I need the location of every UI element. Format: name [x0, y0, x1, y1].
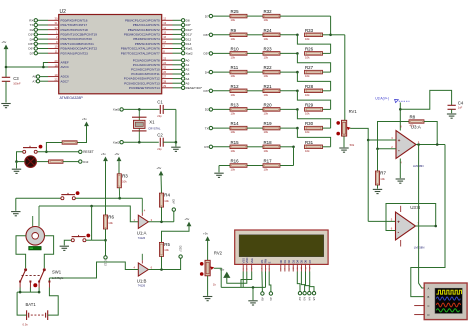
wire U3:A output to scope A [419, 145, 425, 289]
junction Xtal2/X1 [138, 141, 141, 144]
wire +5v rail down [5, 49, 7, 78]
svg-text:U1:B: U1:B [137, 278, 147, 283]
terminal D4 [34, 37, 37, 40]
svg-text:BAT1: BAT1 [26, 302, 37, 307]
wire node to D12 terminal [105, 240, 107, 256]
svg-text:10k: 10k [380, 177, 385, 181]
resistor R5 [159, 242, 170, 257]
wire R26 right [323, 52, 331, 54]
svg-text:2: 2 [56, 35, 58, 39]
resistor R24 [263, 28, 280, 41]
terminal D11* [181, 33, 184, 36]
svg-text:D9*: D9* [186, 23, 192, 27]
svg-text:E: E [267, 261, 271, 263]
svg-text:8: 8 [163, 49, 165, 53]
resistor R1 [62, 141, 77, 144]
wire R1 to RESET node [46, 143, 62, 152]
wire R23 to node [280, 52, 297, 54]
terminal D9* [172, 208, 175, 211]
U2 pin PD5 stub [48, 43, 59, 45]
wire A3 to LCD data [301, 272, 304, 292]
svg-text:ATMEGA328P: ATMEGA328P [60, 96, 84, 100]
svg-text:10k: 10k [122, 180, 127, 184]
wire button3 to node [86, 239, 92, 241]
wire RV2 wiper [214, 268, 222, 287]
svg-text:D6*: D6* [204, 33, 210, 37]
svg-text:D11*: D11* [178, 246, 182, 253]
power +5v left rail [1, 40, 8, 49]
resistor R6 [103, 215, 114, 230]
wire ladder output right [331, 34, 345, 36]
wire -in to R7 [377, 149, 379, 171]
resistor R16 [230, 159, 247, 172]
svg-text:A5: A5 [186, 81, 190, 85]
wire wiper to +in [368, 139, 396, 141]
wire to U3:B +in [368, 220, 395, 222]
svg-text:R8: R8 [410, 115, 416, 120]
wire U3:B V+ stub [400, 206, 402, 212]
U2 pin AVCC stub [48, 66, 59, 68]
U2 pin PC stub [162, 78, 173, 80]
wire net D5* to U2 [37, 43, 48, 45]
svg-text:R12: R12 [231, 84, 240, 89]
svg-text:AVCC: AVCC [61, 65, 70, 69]
svg-text:23: 23 [163, 56, 166, 60]
wire output to scope B [411, 145, 445, 297]
svg-text:PB0/ICP1/CLKO/PCINT0: PB0/ICP1/CLKO/PCINT0 [125, 18, 160, 22]
oscilloscope [424, 283, 467, 320]
svg-text:U2: U2 [60, 9, 67, 15]
svg-text:10k: 10k [231, 112, 236, 116]
terminal Xtal1 [181, 47, 184, 50]
U2 pin PC stub [162, 68, 173, 70]
resistor R23 [263, 46, 280, 59]
svg-text:10k: 10k [264, 149, 269, 153]
svg-text:D4: D4 [30, 37, 34, 41]
capacitor C3 [2, 76, 21, 85]
svg-text:R30: R30 [305, 121, 314, 126]
wire U2 to net A0 [173, 59, 182, 61]
U2 pin PB stub [162, 19, 173, 21]
wire R19 to node [280, 127, 297, 129]
svg-text:10k: 10k [231, 37, 236, 41]
wire R9 to R24 [247, 34, 263, 36]
svg-text:D12: D12 [103, 261, 107, 267]
junction rail2 [90, 205, 93, 208]
wire +5v to R4 [160, 175, 163, 193]
svg-text:-: - [398, 148, 400, 154]
wire SW1 contact3 down [38, 288, 40, 293]
svg-text:VEE: VEE [250, 258, 254, 264]
svg-text:Xtal1: Xtal1 [113, 108, 120, 112]
svg-text:RESET/D0*: RESET/D0* [186, 86, 203, 90]
terminal RESET/D0* [181, 86, 184, 89]
terminal A4 LCD [308, 292, 311, 295]
wire cap rail vertical [175, 109, 177, 142]
svg-text:D13: D13 [83, 160, 89, 164]
ground crystal [171, 147, 180, 151]
wire feedback left leg [378, 122, 410, 149]
resistor R26 [305, 46, 323, 59]
svg-text:PD7/AIN1/PCINT23: PD7/AIN1/PCINT23 [61, 51, 89, 55]
svg-text:TX: TX [30, 23, 34, 27]
svg-text:+: + [398, 139, 401, 144]
wire lamp node to ground [16, 162, 18, 169]
U2 pin PB stub [162, 48, 173, 50]
svg-text:10k: 10k [305, 56, 310, 60]
buffer U1:A 74126 [137, 198, 149, 240]
wire ladder step 6 [297, 128, 330, 147]
terminal D11* [179, 255, 182, 258]
terminal D7 ladder [209, 14, 212, 17]
wire button to lamp node [17, 152, 23, 162]
svg-text:+5v: +5v [82, 117, 87, 121]
wire TX to R14 [213, 127, 231, 129]
U2 pin PD6 stub [48, 48, 59, 50]
wire R4 to output [161, 207, 163, 222]
capacitor C4 [448, 100, 464, 109]
wire +5v to VDD [227, 272, 247, 284]
terminal A2 LCD [298, 292, 301, 295]
wire R5 to output [161, 256, 163, 269]
svg-text:10k: 10k [164, 199, 169, 203]
wire RV1 to ground [343, 136, 345, 147]
crystal X1 [132, 109, 161, 142]
resistor R30 [305, 121, 323, 134]
junction -in/R7 [376, 148, 379, 151]
wire U2 to net A2 [173, 68, 182, 70]
wire R22 to node [280, 71, 297, 73]
svg-text:A3: A3 [303, 297, 307, 301]
svg-text:31: 31 [55, 21, 58, 25]
svg-text:D5: D5 [300, 259, 304, 263]
terminal TX ladder [209, 126, 212, 129]
svg-text:D3: D3 [291, 259, 295, 263]
svg-text:A0: A0 [260, 297, 264, 301]
svg-text:A7: A7 [32, 79, 36, 83]
wire button1 to R3 node [75, 197, 119, 199]
svg-text:10k: 10k [305, 149, 310, 153]
wire V+ pin [399, 103, 401, 131]
junction wiper node [367, 139, 370, 142]
junction ladder node 4 [296, 71, 299, 74]
wire R3 to node [118, 188, 120, 198]
svg-text:74126: 74126 [138, 236, 146, 240]
wire +5v to R1 [77, 126, 87, 143]
svg-text:29: 29 [163, 84, 166, 88]
svg-text:A0: A0 [186, 58, 190, 62]
resistor R7 [375, 171, 386, 186]
junction V+ node [399, 108, 402, 111]
wire to U1:A enable [120, 197, 143, 199]
svg-text:10k: 10k [305, 37, 310, 41]
wire R30 right [323, 127, 331, 129]
svg-text:15: 15 [163, 31, 166, 35]
wire V- pin [399, 159, 401, 179]
wire RS to A0 [261, 272, 264, 292]
svg-text:D13: D13 [186, 42, 192, 46]
svg-text:SW1: SW1 [52, 269, 62, 274]
junction Xtal1/X1 [138, 108, 141, 111]
wire R28 right [323, 90, 331, 92]
power +5v RESET pullup [82, 117, 89, 126]
wire C2 to rail [163, 141, 176, 143]
svg-text:10k: 10k [231, 168, 236, 172]
svg-text:32: 32 [55, 26, 58, 30]
terminal TX [34, 23, 37, 26]
wire V+ to C4 [400, 90, 451, 109]
wire U3:B feedback [386, 204, 436, 231]
svg-text:ADC7: ADC7 [61, 79, 70, 83]
terminal A7 [36, 80, 39, 83]
svg-text:R9: R9 [231, 28, 237, 33]
svg-text:R33: R33 [305, 28, 314, 33]
wire motor left to SW1 pole1 [16, 236, 26, 268]
svg-text:A1: A1 [269, 297, 273, 301]
wire U2 to net D11* [173, 33, 182, 35]
wire rail2 down to button2 [91, 206, 93, 240]
svg-text:1uF: 1uF [458, 106, 463, 110]
resistor R11 [230, 65, 247, 78]
svg-text:R25: R25 [231, 9, 240, 14]
junction ladder node 6 [296, 108, 299, 111]
wire +5v to R3 [118, 161, 120, 174]
wire SW1 contact1 down [19, 288, 21, 293]
svg-text:R24: R24 [264, 28, 273, 33]
U2 pin PB stub [162, 33, 173, 35]
svg-text:+: + [397, 221, 400, 226]
svg-text:R5: R5 [164, 242, 170, 247]
wire net TX to U2 [37, 24, 48, 26]
LCD display LM016L [235, 230, 328, 264]
svg-text:10k: 10k [305, 112, 310, 116]
wire lamp left [17, 161, 25, 163]
svg-text:A6: A6 [32, 75, 36, 79]
svg-text:7: 7 [163, 45, 165, 49]
svg-text:C2: C2 [157, 132, 163, 137]
svg-text:R22: R22 [264, 65, 273, 70]
wire SW1 contact4 up [48, 278, 50, 281]
svg-text:24: 24 [163, 61, 166, 65]
svg-text:R15: R15 [231, 140, 240, 145]
svg-text:PB2/SS/OC1B/PCINT2: PB2/SS/OC1B/PCINT2 [128, 28, 160, 32]
wire U2 to net A4 [173, 78, 182, 80]
svg-text:12: 12 [163, 16, 166, 20]
svg-text:R20: R20 [264, 102, 273, 107]
push button 3 (lower) [71, 234, 90, 242]
wire U2 to net A3 [173, 73, 182, 75]
svg-text:+5v: +5v [156, 166, 161, 170]
svg-text:D7: D7 [205, 14, 209, 18]
U2 pin PD3 stub [48, 33, 59, 35]
svg-text:26: 26 [163, 70, 166, 74]
svg-text:10k: 10k [264, 130, 269, 134]
svg-text:PC4/ADC4/SDA/PCINT12: PC4/ADC4/SDA/PCINT12 [124, 77, 160, 81]
ground ladder [214, 173, 223, 177]
wire AVCC to AREF [43, 63, 48, 68]
wire gnd node down [252, 287, 254, 300]
svg-text:ADC6: ADC6 [61, 75, 70, 79]
wire R31 right [323, 146, 331, 148]
U2 pin ADC7 stub [48, 80, 59, 82]
wire R15 to R18 [247, 146, 263, 148]
wire R18 to node [280, 146, 294, 148]
wire R20 to node [280, 108, 297, 110]
terminal D2 [34, 28, 37, 31]
svg-text:100nF: 100nF [13, 82, 21, 86]
ground RV2 [203, 297, 212, 301]
wire +5V to AVCC [6, 66, 48, 68]
ground lamp [12, 169, 21, 173]
svg-text:10k: 10k [264, 74, 269, 78]
wire net D3* to U2 [37, 33, 48, 35]
U2 pin PC stub [162, 64, 173, 66]
microcontroller U2 ATMEGA328P body [59, 15, 162, 94]
svg-text:R28: R28 [305, 84, 314, 89]
svg-text:R26: R26 [305, 46, 314, 51]
svg-text:-: - [398, 229, 400, 235]
resistor R27 [305, 65, 323, 78]
wire feedback to -in [378, 148, 397, 150]
terminal D9* [181, 23, 184, 26]
wire D4 to R11 [213, 71, 231, 73]
terminal A1 [181, 63, 184, 66]
push button 2 (top) [61, 191, 80, 199]
wire R29 right [323, 108, 331, 110]
svg-text:A4: A4 [307, 297, 311, 301]
junction AREF/AVCC [42, 66, 45, 69]
svg-text:10k: 10k [305, 93, 310, 97]
resistor R28 [305, 84, 323, 97]
svg-text:Xtal1: Xtal1 [186, 47, 193, 51]
svg-text:C1: C1 [157, 99, 163, 104]
svg-text:R13: R13 [231, 102, 240, 107]
svg-text:VDD: VDD [245, 258, 249, 264]
svg-text:3: 3 [151, 218, 153, 222]
svg-text:13: 13 [163, 21, 166, 25]
svg-text:PC0/ADC0/PCINT8: PC0/ADC0/PCINT8 [133, 58, 160, 62]
wire net D4 to U2 [37, 38, 48, 40]
power +5v R3 [114, 152, 121, 161]
svg-text:R27: R27 [305, 65, 314, 70]
wire net D2 to U2 [37, 29, 48, 31]
svg-text:PC6/RESET/PCINT14: PC6/RESET/PCINT14 [129, 86, 160, 90]
U2 pin PD7 stub [48, 52, 59, 54]
resistor R29 [305, 102, 323, 115]
wire R2 to D13 terminal [63, 161, 79, 163]
svg-text:TX: TX [205, 126, 209, 130]
wire U2 to net D9* [173, 24, 182, 26]
ground RV1 [339, 148, 348, 152]
svg-text:47k: 47k [410, 124, 415, 128]
power +5v RV2 [203, 232, 210, 241]
svg-text:A2: A2 [186, 68, 190, 72]
wire rail to ground [175, 142, 177, 146]
svg-text:D5*: D5* [28, 42, 34, 46]
U2 right pin names PB0-PB7 [121, 18, 160, 55]
svg-text:D7: D7 [308, 259, 312, 263]
wire A7 to ADC7 [40, 80, 48, 82]
svg-text:PC1/ADC1/PCINT9: PC1/ADC1/PCINT9 [133, 63, 160, 67]
voltage probe U3:A(V+) [375, 96, 409, 102]
svg-text:R19: R19 [264, 121, 273, 126]
svg-text:PB4/MISO/PCINT4: PB4/MISO/PCINT4 [133, 37, 160, 41]
terminal D6* [34, 47, 37, 50]
wire C4 to ground [451, 109, 453, 113]
wire +5v to RV2 [207, 241, 209, 261]
wire D6* to R9 [213, 34, 231, 36]
svg-text:4: 4 [144, 208, 146, 212]
power +5v R6 [101, 152, 108, 161]
wire RW down [265, 272, 267, 288]
wire net D7 to U2 [37, 52, 48, 54]
capacitor C1 [157, 99, 163, 118]
lamp L1 [25, 156, 37, 168]
wire U2 to net A5 [173, 82, 182, 84]
resistor R25 [230, 9, 247, 22]
terminal RX ladder [209, 145, 212, 148]
wire D2 to R13 [213, 108, 231, 110]
svg-text:16: 16 [163, 35, 166, 39]
terminal D2 ladder [209, 108, 212, 111]
junction ladder node 7 [296, 127, 299, 130]
wire motor encoder to U1:A input [39, 206, 138, 222]
svg-text:RW: RW [264, 259, 268, 264]
svg-text:R29: R29 [305, 102, 314, 107]
buffer U1:B 74126 [137, 254, 149, 288]
svg-text:Xtal2: Xtal2 [186, 51, 193, 55]
svg-text:0.5v: 0.5v [23, 323, 29, 327]
wire R16 ground stub [218, 166, 220, 173]
wire R12 to R21 [247, 90, 263, 92]
svg-text:A4: A4 [186, 77, 190, 81]
junction output/R8 [436, 143, 439, 146]
wire D7 to R25 [213, 15, 231, 17]
resistor R19 [263, 121, 280, 134]
resistor R9 [230, 28, 247, 41]
terminal D8 [181, 19, 184, 22]
svg-text:U3:A(V+): U3:A(V+) [375, 96, 389, 100]
ground U3:A V- [396, 179, 405, 183]
potentiometer RV2 [200, 250, 223, 286]
terminal D3* ladder [209, 89, 212, 92]
junction ladder node 8 [292, 146, 295, 149]
wire U3:B V- stub [400, 240, 402, 247]
svg-text:1: 1 [134, 218, 136, 222]
svg-text:30: 30 [55, 16, 58, 20]
resistor R14 [230, 121, 247, 134]
wire U2 to net D10* [173, 29, 182, 31]
wire ladder step 5 [297, 109, 330, 128]
junction LCD ground [252, 286, 255, 289]
svg-text:D6: D6 [304, 259, 308, 263]
svg-text:PD2/INT0/PCINT18: PD2/INT0/PCINT18 [61, 28, 88, 32]
terminal Xtal1 (left) [120, 108, 123, 111]
wire R11 to R22 [247, 71, 263, 73]
wire output to D11* terminal [179, 258, 181, 269]
wire output to D9* terminal [173, 211, 175, 222]
svg-text:Left-Right: Left-Right [52, 276, 64, 280]
power +5v R5 [184, 217, 191, 226]
svg-text:R18: R18 [264, 140, 273, 145]
svg-text:C4: C4 [458, 100, 464, 105]
wire motor right to SW1 pole2 [44, 236, 53, 268]
svg-text:RX: RX [29, 19, 33, 23]
wire E to A1 [269, 272, 271, 292]
wire C1 to rail [163, 108, 176, 110]
junction R3/enable [118, 197, 121, 200]
svg-text:74126: 74126 [138, 284, 146, 288]
